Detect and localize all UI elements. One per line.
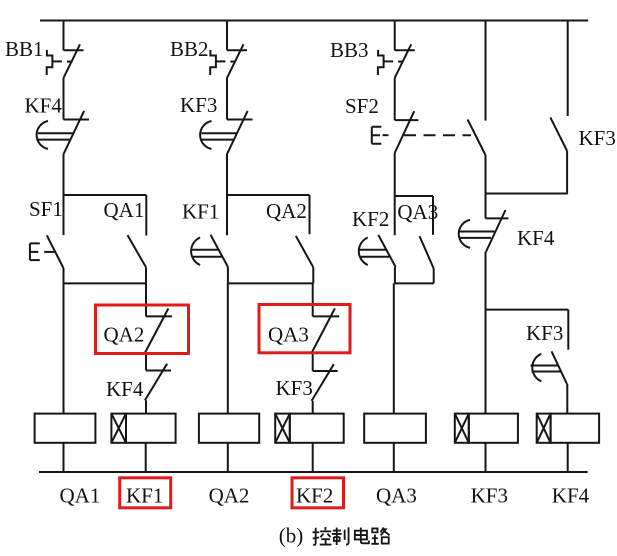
wire branch1 drop	[63, 21, 65, 51]
wire	[63, 443, 65, 472]
wire	[312, 353, 314, 371]
wire	[566, 151, 568, 194]
contact QA2 self-hold	[296, 236, 314, 267]
NC contact QA2 interlock	[145, 308, 172, 353]
svg-text:QA2: QA2	[266, 199, 307, 223]
wire	[145, 267, 147, 283]
svg-text:QA2: QA2	[209, 483, 250, 507]
wire	[433, 269, 435, 284]
svg-text:QA1: QA1	[104, 198, 145, 222]
svg-text:KF4: KF4	[552, 483, 590, 507]
svg-text:SF1: SF1	[29, 197, 63, 221]
wire branch3 drop	[394, 21, 396, 51]
wire	[394, 153, 396, 196]
wire	[145, 353, 147, 371]
time-delay NC contact KF4	[37, 111, 89, 153]
highlight box KF1	[120, 478, 171, 508]
wire to coil QA2	[227, 283, 229, 413]
thermal contact BB2	[210, 44, 247, 78]
wire mechanical dashed link	[404, 134, 471, 136]
coil QA1	[35, 414, 96, 443]
coil KF4	[537, 414, 599, 443]
svg-text:KF2: KF2	[296, 483, 333, 507]
svg-text:KF3: KF3	[276, 376, 313, 400]
bottom bus N	[39, 471, 588, 473]
wire branch4 drop	[485, 21, 487, 121]
wire join top right	[486, 193, 568, 195]
time-delay NC contact KF3	[200, 111, 252, 153]
wire	[394, 267, 396, 284]
wire	[227, 443, 229, 472]
wire	[145, 400, 147, 413]
wire	[63, 153, 65, 195]
wire	[145, 283, 147, 316]
wire	[145, 195, 147, 236]
thermal contact BB3	[378, 44, 415, 78]
wire	[485, 443, 487, 472]
wire	[394, 78, 396, 120]
wire	[63, 195, 65, 235]
svg-text:KF3: KF3	[526, 321, 563, 345]
pushbutton SF2	[372, 111, 419, 153]
svg-text:BB2: BB2	[170, 37, 209, 61]
wire	[485, 252, 487, 310]
wire branch right	[486, 309, 569, 311]
NC contact KF3	[312, 364, 338, 401]
coil QA3	[364, 414, 426, 443]
svg-text:KF2: KF2	[352, 207, 389, 231]
svg-text:KF4: KF4	[25, 94, 63, 118]
wire	[485, 155, 487, 194]
caption 控制电路	[312, 527, 389, 545]
coil KF1	[111, 414, 175, 443]
wire to coil QA1	[63, 283, 65, 413]
highlight box QA3	[259, 305, 350, 353]
wire	[63, 268, 65, 283]
coil KF2	[275, 414, 343, 443]
contact KF3	[550, 118, 567, 151]
NC contact QA3 interlock	[312, 308, 340, 353]
svg-text:QA3: QA3	[397, 200, 438, 224]
wire	[432, 196, 434, 235]
wire	[227, 267, 229, 284]
wire split branch1	[64, 194, 147, 196]
svg-text:BB1: BB1	[5, 37, 44, 61]
wire	[312, 283, 314, 316]
svg-text:BB3: BB3	[330, 38, 369, 62]
wire	[312, 443, 314, 472]
coil QA2	[199, 414, 259, 443]
svg-text:SF2: SF2	[345, 94, 379, 118]
wire	[394, 196, 396, 235]
svg-text:KF1: KF1	[182, 200, 219, 224]
wire join branch2	[228, 282, 313, 284]
wire	[145, 443, 147, 472]
contact QA3 self-hold	[420, 236, 434, 268]
svg-text:KF3: KF3	[471, 483, 508, 507]
wire join branch3	[395, 282, 434, 284]
wire split branch3	[395, 195, 433, 197]
wire	[309, 195, 311, 234]
svg-text:KF3: KF3	[180, 93, 217, 117]
contact SF2 linked	[468, 120, 486, 155]
wire	[567, 443, 569, 472]
wire split branch2	[227, 194, 310, 196]
wire	[393, 443, 395, 472]
top bus L+	[40, 20, 588, 22]
wire branch5 drop	[567, 21, 569, 117]
highlight box KF2	[292, 478, 344, 508]
svg-text:QA3: QA3	[268, 322, 309, 346]
highlight box QA2	[96, 305, 189, 354]
svg-text:KF4: KF4	[517, 226, 555, 250]
wire	[63, 78, 65, 120]
wire to coil QA3	[393, 283, 395, 413]
wire	[226, 153, 228, 195]
wire	[485, 194, 487, 219]
time-delay NO contact KF2	[359, 235, 396, 267]
wire	[312, 401, 314, 414]
pushbutton SF1	[30, 235, 64, 268]
svg-text:KF1: KF1	[126, 483, 163, 507]
svg-text:KF3: KF3	[579, 126, 616, 150]
wire	[226, 195, 228, 235]
wire	[567, 310, 569, 350]
contact QA1 self-hold	[128, 235, 147, 267]
wire	[312, 267, 314, 283]
thermal contact BB1	[47, 44, 84, 78]
wire to coil KF3	[485, 310, 487, 414]
time-delay NO contact KF3	[531, 351, 568, 384]
wire	[226, 78, 228, 120]
time-delay NO contact KF1	[191, 235, 228, 267]
wire join branch1	[64, 282, 147, 284]
wire branch2 drop	[226, 21, 228, 51]
svg-text:(b): (b)	[279, 524, 304, 548]
NC contact KF4	[145, 364, 171, 401]
svg-text:QA1: QA1	[60, 483, 101, 507]
svg-text:KF4: KF4	[106, 377, 144, 401]
svg-text:QA2: QA2	[104, 323, 145, 347]
wire	[566, 384, 568, 414]
coil KF3	[455, 414, 518, 443]
svg-text:QA3: QA3	[376, 483, 417, 507]
time-delay NC contact KF4	[459, 210, 509, 252]
